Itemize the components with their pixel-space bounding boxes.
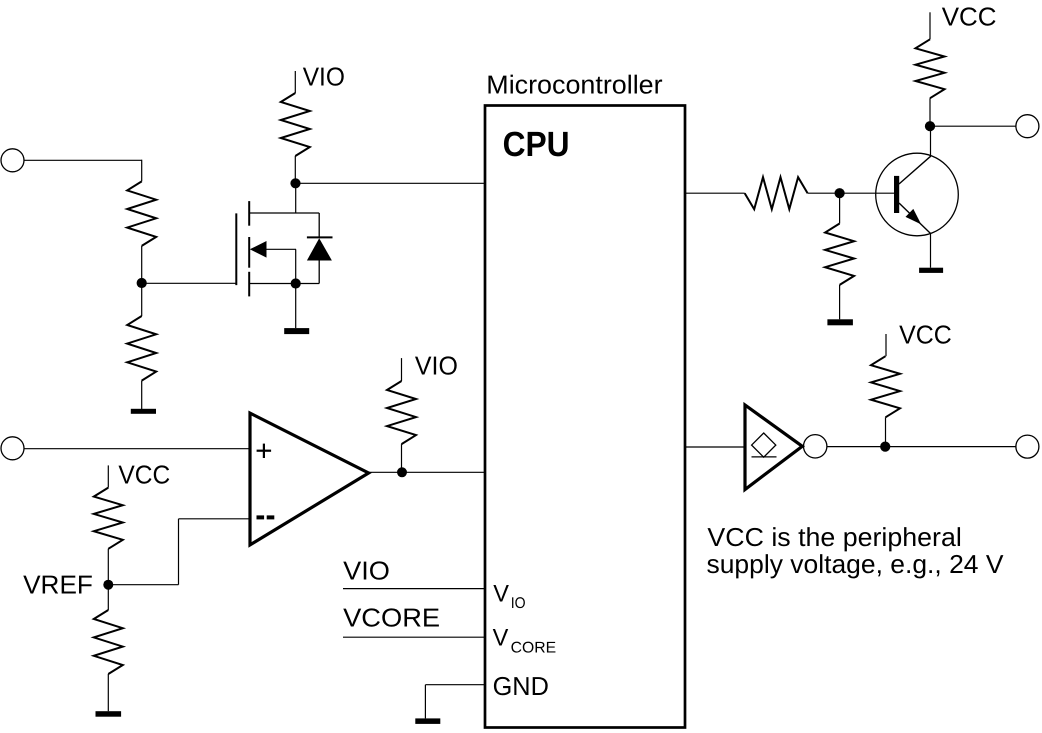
op-amp U2 [250,413,369,545]
microcontroller U1 box [485,106,685,728]
GND pin wire [425,684,484,686]
svg-text:VIO: VIO [343,556,390,586]
mosfet Q1 source wire [295,249,297,283]
wire R3 to node B [294,156,296,183]
mosfet Q1 gate line [235,213,237,285]
svg-text:GND: GND [493,671,549,701]
ground G2 [284,328,309,334]
resistor R7 [745,177,808,209]
svg-text:VCC: VCC [118,459,170,489]
wire node E to J3 [930,125,1016,127]
wire R6 to ground [107,674,109,711]
VIO supply stub [294,71,296,93]
wire node D to base [840,192,894,194]
svg-text:VCORE: VCORE [343,603,440,633]
svg-text:VCC: VCC [899,320,952,350]
svg-text:VCC: VCC [942,2,997,32]
svg-text:V: V [493,625,509,652]
mosfet Q1 drain connection [249,212,319,214]
output terminal J3 [1016,115,1039,138]
transistor Q2 base bar [894,176,899,213]
VIO supply stub 2 [401,358,403,381]
op-amp minus sign [257,515,265,519]
svg-text:V: V [493,581,509,608]
wire J1 to R1 [24,159,142,161]
svg-text:VREF: VREF [23,569,93,599]
node B [290,178,300,188]
wire bubble to J4 [827,446,1016,448]
ground G4 [96,711,122,717]
svg-text:supply voltage, e.g., 24 V: supply voltage, e.g., 24 V [707,549,1005,579]
transistor Q2 circle [876,153,959,236]
svg-text:CORE: CORE [511,640,557,657]
transistor Q2 collector [899,156,931,184]
svg-text:VIO: VIO [415,350,458,380]
wire Q1 source to ground [295,284,297,329]
buffer U3 [745,405,802,490]
mosfet Q1 channel segments [248,201,250,226]
wire node D to R8 [839,193,841,223]
resistor R3 [281,93,310,156]
resistor R5 [94,488,123,549]
wire R4 to node C [401,444,403,472]
wire R5 to node VREF [107,549,109,585]
wire CPU to R7 [685,192,745,194]
node C [397,467,407,477]
resistor R9 [916,39,945,98]
input terminal J1 [1,149,24,172]
node A [137,278,147,288]
VCC supply stub [107,465,109,487]
node E [925,121,935,131]
wire node A to gate [142,282,237,284]
resistor R1 [127,181,156,246]
svg-text:VCC is the peripheral: VCC is the peripheral [707,522,961,552]
ground G3 [415,718,440,724]
ground G5 [827,319,853,325]
input terminal J2 [1,437,24,460]
svg-text:Microcontroller: Microcontroller [486,70,663,100]
wire node A to R2 [141,283,143,316]
mosfet Q1 source arrow [250,241,267,258]
wire R9 to node E [929,98,931,126]
resistor R4 [387,381,416,444]
resistor R10 [871,356,900,417]
node F [880,442,890,452]
wire J2 to op-amp + [24,448,250,450]
svg-text:CPU: CPU [503,125,570,164]
wire R7 to node D [808,192,840,194]
VCC supply stub 2 [885,334,887,356]
wire emitter to ground [930,234,932,268]
svg-text:IO: IO [511,595,526,612]
wire node B to CPU [296,182,485,184]
mosfet Q1 source node [291,278,301,288]
resistor R8 [825,224,854,285]
buffer open-drain diamond [752,433,776,457]
svg-text:VIO: VIO [303,62,345,92]
wire R2 to ground [141,381,143,409]
transistor Q2 emitter [899,203,931,234]
wire VREF to R6 [107,585,109,610]
wire op-amp out to CPU [369,471,485,473]
wire R10 to node F [885,417,887,446]
node VREF [103,580,113,590]
wire R8 to ground [839,285,841,319]
resistor R2 [127,316,156,381]
body diode D1 [318,213,320,238]
node D [835,188,845,198]
wire R1 to node A [141,246,143,283]
buffer output bubble [804,435,827,458]
ground G6 [919,268,943,273]
ground G1 [131,409,156,414]
op-amp plus sign [257,450,272,452]
resistor R6 [94,610,123,674]
VCC supply stub top [929,12,931,39]
wire VREF to op-amp minus [108,584,178,586]
wire CPU to buffer [685,446,745,448]
output terminal J4 [1016,435,1039,458]
